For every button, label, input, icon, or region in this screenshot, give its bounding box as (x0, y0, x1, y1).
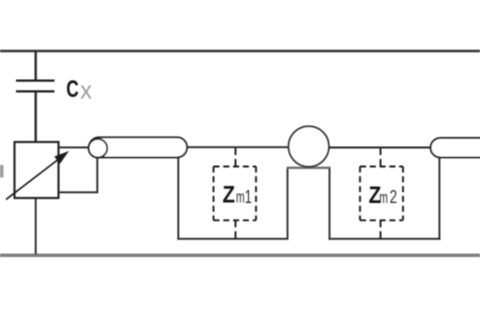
label Cx (66, 77, 92, 105)
svg-text:1: 1 (245, 188, 252, 208)
svg-text:m: m (236, 187, 245, 206)
wire box bottom to ground line (35, 198, 37, 255)
delay line 1 end circle (89, 139, 108, 158)
variable arrow across box (6, 151, 69, 200)
Zm1 bottom dashed stub (235, 220, 237, 239)
variable impedance box Zm (cut at left) (15, 142, 59, 198)
wire box to delay line 1 input (59, 146, 90, 148)
wire capacitor to variable impedance box (35, 93, 37, 143)
svg-text:Z: Z (222, 181, 235, 208)
delay line 1 body (cylinder) (89, 137, 187, 157)
coupling circle (289, 126, 329, 166)
wire coupling circle to delay line 2 (329, 147, 431, 149)
delay line 2 body (cut at right edge) (431, 138, 480, 157)
bottom bus 1 (177, 238, 288, 240)
wire bottom ground line (0, 254, 480, 257)
capacitor Cx bottom plate (16, 90, 55, 92)
label Zm1 (222, 181, 251, 208)
wire back to box lower right (59, 191, 99, 193)
wire right leg under coupling circle (329, 168, 331, 240)
wire delay line 2 left end down to bus 2 (438, 157, 440, 239)
wire delay line 1 right end down to bus 1 (177, 157, 179, 239)
wire left leg under coupling circle (287, 168, 289, 240)
gray bar under coupling circle (287, 167, 331, 169)
bottom bus 2 (329, 238, 441, 240)
label Zm2 (369, 181, 397, 208)
label m fragment at left edge (0, 165, 3, 178)
wire delay line 1 to coupling circle (187, 146, 289, 148)
wire from top bus to capacitor Cx (35, 51, 37, 80)
svg-text:2: 2 (390, 187, 397, 208)
impedance Zm2 dashed box (360, 167, 403, 221)
impedance Zm1 dashed box (214, 167, 257, 221)
Zm1 top dashed stub (235, 148, 237, 167)
Zm2 bottom dashed stub (380, 220, 382, 239)
svg-text:m: m (379, 187, 388, 206)
svg-text:x: x (80, 78, 92, 104)
wire below delay line 1 end down (96, 158, 98, 193)
capacitor Cx top plate (16, 79, 55, 81)
svg-text:C: C (66, 77, 78, 103)
Zm2 top dashed stub (380, 148, 382, 167)
wire top bus line (0, 50, 480, 53)
